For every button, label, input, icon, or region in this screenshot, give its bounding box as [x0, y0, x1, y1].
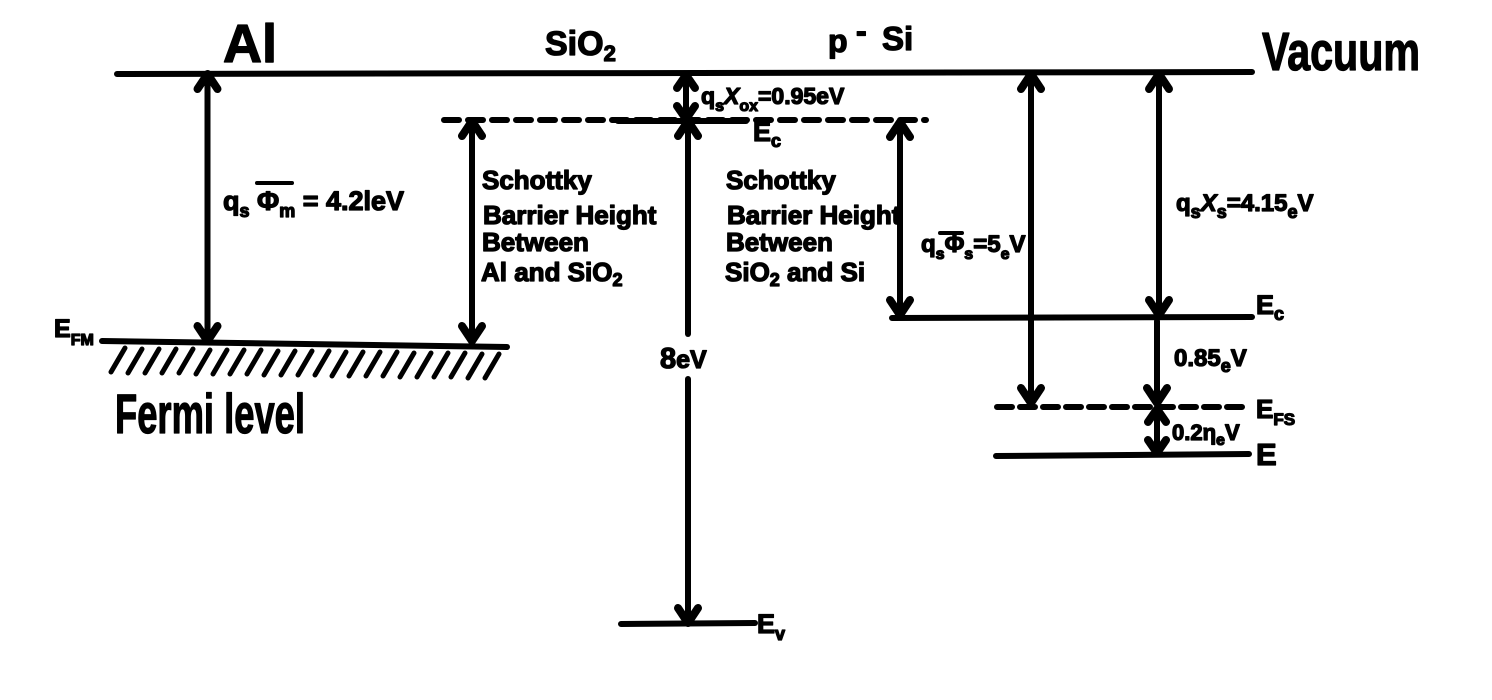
svg-text:Between: Between [726, 227, 833, 257]
svg-text:Ev: Ev [757, 609, 785, 644]
svg-text:Vacuum: Vacuum [1262, 22, 1420, 82]
svg-text:Schottky: Schottky [726, 165, 836, 195]
svg-text:Fermi level: Fermi level [115, 382, 305, 445]
arrow 0.85eV (Ec to E_FS) [1154, 321, 1160, 399]
fermi level line (metal) [102, 341, 507, 347]
overbar on phi_m [257, 181, 292, 185]
svg-text:qsΦs=5eV: qsΦs=5eV [921, 231, 1025, 263]
svg-text:EFS: EFS [1256, 394, 1295, 429]
arrow qPhi-m (double, Al work function) [205, 78, 211, 338]
svg-text:-: - [856, 13, 867, 49]
arrow 8eV band gap (double, long with gap at label) [685, 125, 691, 334]
svg-text:Schottky: Schottky [482, 165, 592, 195]
arrow 0.27eV (E_FS to Ev-Si, small double) [1154, 412, 1160, 450]
svg-text:0.85eV: 0.85eV [1174, 345, 1247, 376]
arrow schottky SiO2/Si (double) [897, 126, 903, 312]
vacuum level line [117, 72, 1252, 74]
svg-text:Between: Between [482, 227, 589, 257]
Ev silicon line [996, 454, 1249, 456]
svg-text:Barrier Height: Barrier Height [727, 200, 901, 230]
svg-text:SiO2 and Si: SiO2 and Si [725, 257, 865, 290]
svg-text:Barrier Height: Barrier Height [483, 200, 657, 230]
Ec silicon line [892, 317, 1252, 318]
overbar on phi_s [940, 231, 962, 235]
arrow q chi_s (vacuum to Ec, double) [1156, 78, 1162, 312]
svg-text:EFM: EFM [54, 315, 94, 349]
hatching under fermi level [111, 348, 499, 378]
svg-text:8eV: 8eV [660, 343, 707, 375]
svg-text:E: E [1256, 437, 1277, 472]
svg-text:qsXox=0.95eV: qsXox=0.95eV [701, 83, 845, 115]
svg-text:Al and SiO2: Al and SiO2 [481, 257, 622, 290]
arrow schottky Al/SiO2 (double) [469, 125, 475, 338]
svg-text:Ec: Ec [753, 117, 781, 151]
svg-text:qs Φm = 4.2leV: qs Φm = 4.2leV [223, 186, 404, 221]
dashed SiO2 conduction band line [444, 117, 926, 123]
dashed E_FS line [997, 404, 1247, 410]
svg-text:Si: Si [882, 20, 913, 57]
arrow q chi_ox (short double) [683, 78, 689, 116]
Ev oxide line [621, 623, 755, 624]
svg-text:Al: Al [223, 14, 277, 74]
svg-text:p: p [828, 23, 848, 59]
svg-text:qsXs=4.15eV: qsXs=4.15eV [1176, 190, 1313, 222]
svg-text:0.2ηeV: 0.2ηeV [1172, 420, 1240, 449]
arrow q phi_s (vacuum to E_FS, double) [1028, 78, 1034, 399]
svg-text:SiO2: SiO2 [545, 25, 616, 66]
svg-text:Ec: Ec [1256, 290, 1284, 324]
solid run of dashed line [618, 118, 746, 124]
